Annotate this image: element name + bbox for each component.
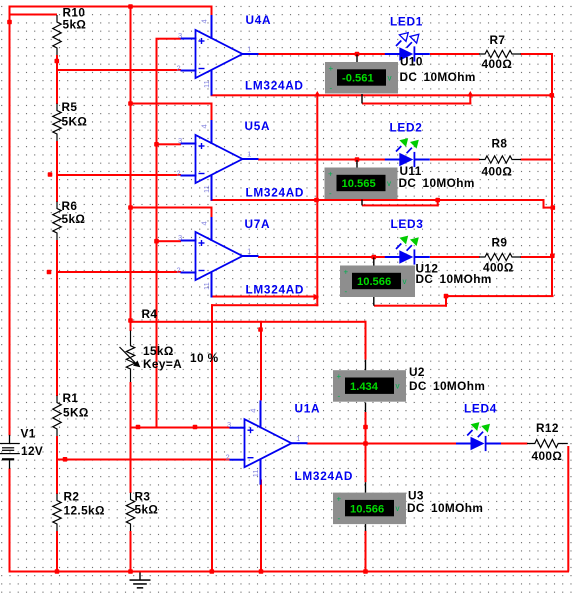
svg-text:10MOhm: 10MOhm [440, 272, 492, 286]
svg-text:1.434: 1.434 [350, 381, 379, 393]
svg-text:U5A: U5A [245, 119, 271, 133]
svg-text:2: 2 [177, 168, 181, 177]
svg-text:Key=A: Key=A [143, 357, 182, 371]
svg-text:v: v [388, 74, 392, 83]
svg-text:10 %: 10 % [190, 351, 219, 365]
svg-text:LM324AD: LM324AD [246, 185, 305, 199]
svg-text:12.5kΩ: 12.5kΩ [64, 504, 105, 518]
svg-text:+: + [344, 268, 349, 277]
svg-text:+: + [337, 372, 342, 381]
svg-text:LED3: LED3 [391, 217, 424, 231]
svg-text:10MOhm: 10MOhm [423, 176, 475, 190]
svg-text:5kΩ: 5kΩ [63, 18, 87, 32]
svg-text:U2: U2 [409, 365, 425, 379]
svg-text:5KΩ: 5KΩ [62, 115, 88, 129]
svg-text:LM324AD: LM324AD [246, 283, 305, 297]
svg-text:v: v [387, 179, 391, 188]
svg-text:5kΩ: 5kΩ [62, 212, 86, 226]
svg-text:2: 2 [226, 453, 230, 462]
svg-text:10.566: 10.566 [357, 276, 391, 288]
svg-text:U1A: U1A [295, 402, 321, 416]
svg-text:LM324AD: LM324AD [295, 469, 354, 483]
svg-text:1: 1 [247, 150, 251, 159]
svg-text:1: 1 [247, 45, 251, 54]
svg-text:-0.561: -0.561 [342, 73, 374, 85]
svg-text:11: 11 [202, 185, 211, 193]
svg-text:R7: R7 [490, 33, 506, 47]
svg-text:2: 2 [177, 63, 181, 72]
svg-text:DC: DC [399, 176, 417, 190]
svg-text:10MOhm: 10MOhm [431, 501, 483, 515]
svg-text:15kΩ: 15kΩ [143, 344, 174, 358]
svg-text:-: - [338, 514, 341, 523]
svg-text:400Ω: 400Ω [482, 57, 513, 71]
svg-text:10MOhm: 10MOhm [433, 379, 485, 393]
svg-text:R8: R8 [492, 137, 508, 151]
svg-text:11: 11 [202, 282, 211, 290]
svg-text:U7A: U7A [245, 217, 271, 231]
svg-text:R4: R4 [142, 307, 158, 321]
svg-text:10MOhm: 10MOhm [424, 70, 476, 84]
svg-text:LM324AD: LM324AD [245, 79, 304, 93]
svg-text:11: 11 [202, 80, 211, 88]
svg-text:400Ω: 400Ω [532, 449, 563, 463]
svg-text:4: 4 [199, 124, 208, 128]
svg-text:LED2: LED2 [390, 120, 423, 134]
svg-text:-: - [338, 392, 341, 401]
svg-text:-: - [330, 84, 333, 93]
svg-text:LED1: LED1 [390, 14, 423, 28]
svg-text:R2: R2 [64, 490, 80, 504]
svg-text:DC: DC [416, 272, 434, 286]
svg-text:DC: DC [407, 501, 425, 515]
svg-text:2: 2 [177, 265, 181, 274]
svg-text:3: 3 [178, 31, 182, 40]
svg-text:R9: R9 [492, 236, 508, 250]
svg-text:1: 1 [296, 434, 300, 443]
svg-text:DC: DC [409, 379, 427, 393]
svg-text:R12: R12 [536, 421, 559, 435]
svg-text:+: + [328, 170, 333, 179]
svg-text:R6: R6 [62, 199, 78, 213]
svg-text:5KΩ: 5KΩ [63, 406, 89, 420]
svg-text:10.565: 10.565 [342, 178, 376, 190]
svg-text:R1: R1 [63, 391, 79, 405]
svg-text:4: 4 [199, 19, 208, 23]
svg-text:400Ω: 400Ω [482, 165, 513, 179]
svg-text:11: 11 [251, 469, 260, 477]
svg-text:1: 1 [247, 247, 251, 256]
svg-text:U10: U10 [400, 55, 423, 69]
svg-text:4: 4 [199, 221, 208, 225]
svg-text:LED4: LED4 [464, 402, 497, 416]
svg-text:-: - [345, 287, 348, 296]
svg-text:U4A: U4A [246, 13, 272, 27]
svg-text:DC: DC [400, 70, 418, 84]
svg-text:v: v [396, 504, 400, 513]
svg-text:5kΩ: 5kΩ [135, 503, 159, 517]
svg-text:+: + [329, 64, 334, 73]
svg-text:3: 3 [178, 233, 182, 242]
svg-text:-: - [329, 189, 332, 198]
svg-text:V1: V1 [21, 427, 36, 441]
svg-text:R5: R5 [62, 100, 78, 114]
svg-text:3: 3 [178, 136, 182, 145]
svg-text:3: 3 [227, 420, 231, 429]
svg-text:+: + [337, 495, 342, 504]
svg-text:10.566: 10.566 [350, 503, 384, 515]
svg-text:4: 4 [248, 409, 257, 413]
svg-text:v: v [396, 382, 400, 391]
svg-text:v: v [403, 277, 407, 286]
svg-text:R3: R3 [135, 490, 151, 504]
svg-text:12V: 12V [21, 444, 43, 458]
